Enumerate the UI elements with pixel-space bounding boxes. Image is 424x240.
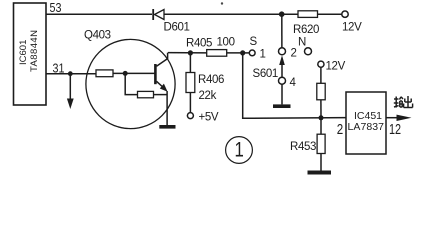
node S junction — [240, 50, 245, 55]
switch contact 4 — [279, 77, 286, 84]
wire: pin 31 to base resistor — [46, 73, 96, 75]
svg-text:LA7837: LA7837 — [348, 121, 385, 133]
resistor: base series (in Q403) — [96, 70, 113, 77]
svg-text:D601: D601 — [164, 22, 190, 34]
ground: Q403 emitter — [159, 125, 175, 129]
IC U451 box (IC451 LA7837) — [346, 92, 386, 154]
svg-text:S: S — [250, 36, 258, 48]
transistor Q403 envelope circle — [86, 39, 175, 128]
wire: node S to contact 1 — [243, 52, 250, 54]
output label second glyph (chu) — [404, 96, 413, 108]
wire: base resistor to transistor base — [113, 72, 155, 74]
svg-text:R453: R453 — [290, 141, 316, 153]
output arrow — [397, 115, 412, 121]
svg-text:2: 2 — [291, 48, 297, 60]
svg-text:S601: S601 — [253, 68, 278, 80]
resistor R406 — [186, 73, 195, 93]
wire: collector riser to R405 — [168, 52, 207, 54]
IC U601 box (IC601 TA8844N) — [14, 3, 47, 105]
svg-text:1: 1 — [260, 49, 266, 61]
wire: diode to top junction — [164, 13, 282, 15]
node: base/BE-resistor junction — [123, 71, 128, 76]
switch S601 pole contact 2 — [279, 48, 286, 55]
resistor R620 — [298, 11, 318, 18]
terminal: 12V mid — [318, 61, 324, 67]
svg-text:R406: R406 — [198, 74, 224, 86]
circled 1 figure marker — [226, 137, 253, 164]
wire: top junction down to switch pole 2 — [281, 14, 283, 48]
wire: BE branch down and right — [125, 73, 137, 94]
transistor Q403 symbol — [155, 53, 167, 92]
switch contact N — [305, 48, 312, 55]
svg-text:100: 100 — [217, 37, 235, 49]
terminal: 12V top — [342, 11, 348, 17]
wire: emitter to ground — [166, 91, 168, 125]
svg-text:R405: R405 — [186, 38, 212, 50]
svg-text:12: 12 — [389, 120, 401, 137]
wire: R405 to node S — [227, 52, 243, 54]
svg-text:1: 1 — [235, 139, 244, 162]
wire: junction down to R406 — [189, 53, 191, 73]
wire: R453 to ground — [320, 154, 322, 171]
wire: junction to R620 — [282, 13, 298, 15]
switch S601 wiper arrow — [279, 55, 285, 77]
switch contact 1 — [249, 50, 255, 56]
wire: R406 to +5V terminal — [189, 93, 191, 113]
wire: junction to R453 — [320, 118, 322, 134]
resistor: 12V dropper (unlabeled) — [317, 83, 325, 100]
wire: pin 12 output — [386, 117, 399, 119]
wire: 12V terminal to dropper resistor — [320, 67, 322, 83]
wire: pin 53 to diode D601 — [46, 13, 152, 15]
output label (Chinese: shu chu) — [394, 97, 403, 108]
resistor R405 — [207, 50, 227, 57]
wire: contact 4 to ground — [281, 84, 283, 104]
diode D601 — [153, 9, 164, 20]
svg-text:22k: 22k — [199, 90, 217, 102]
svg-text:12V: 12V — [342, 22, 362, 34]
wire: R620 to 12V terminal — [318, 13, 342, 15]
svg-text:4: 4 — [290, 77, 297, 89]
resistor: base-emitter (in Q403) — [138, 91, 154, 97]
svg-text:12V: 12V — [326, 61, 346, 73]
ground: S601 contact 4 — [273, 104, 291, 108]
node: pin31/arrow junction — [68, 71, 73, 76]
svg-text:2: 2 — [337, 121, 343, 138]
wire: dropper resistor to bottom rail — [320, 100, 322, 118]
svg-text:N: N — [298, 37, 306, 49]
svg-text:IC601: IC601 — [18, 40, 29, 65]
node: R405/R406 junction — [188, 50, 193, 55]
node: bottom rail junction — [319, 115, 324, 120]
svg-text:Q403: Q403 — [84, 30, 111, 42]
resistor R453 — [317, 134, 325, 153]
scan speck (noise) — [221, 2, 223, 4]
terminal: +5V — [187, 113, 193, 119]
wire: node S down to bottom rail — [243, 53, 346, 118]
svg-text:R620: R620 — [293, 24, 319, 36]
ground: R453 — [308, 171, 332, 175]
svg-text:TA8844N: TA8844N — [29, 30, 40, 72]
wire: BE resistor to emitter line — [154, 94, 168, 96]
svg-text:53: 53 — [50, 0, 62, 15]
node: top rail junction — [279, 11, 285, 17]
svg-text:+5V: +5V — [199, 112, 219, 124]
signal arrow down — [67, 74, 74, 109]
